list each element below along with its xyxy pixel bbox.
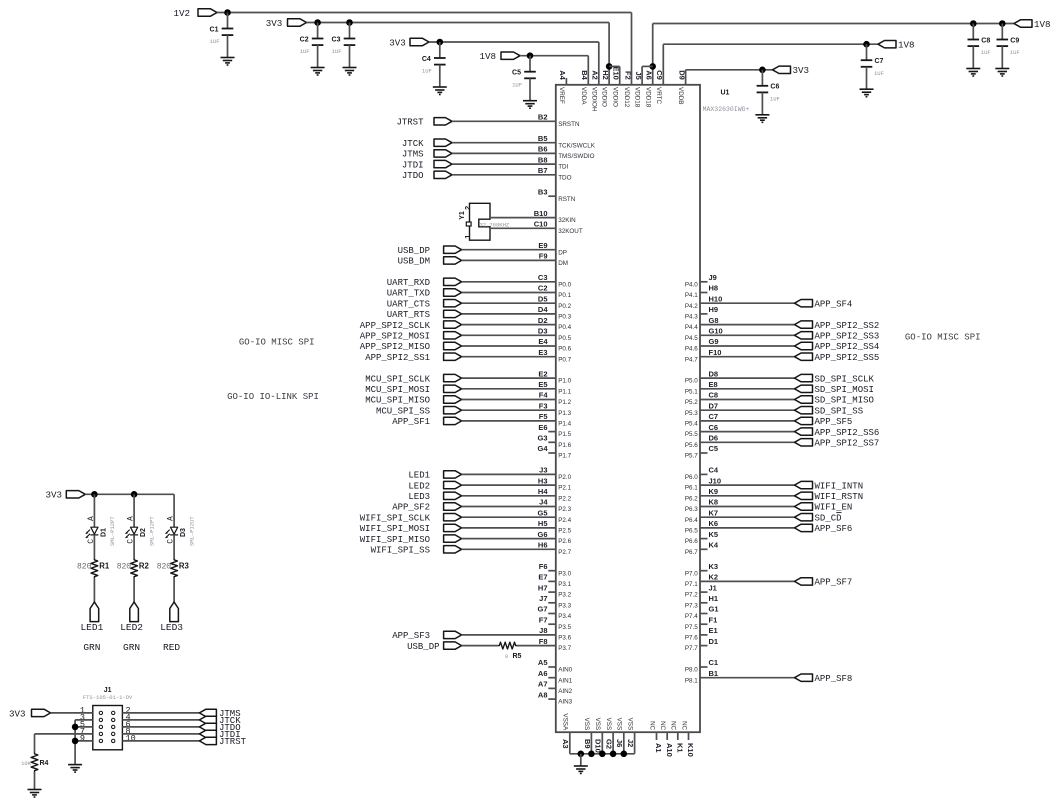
svg-text:P6.4: P6.4: [685, 517, 698, 524]
svg-text:G7: G7: [537, 605, 547, 614]
svg-text:UART_RTS: UART_RTS: [387, 310, 430, 320]
net flag JTDO: [199, 723, 240, 733]
wire to ground: [580, 754, 582, 766]
wire APP_SF8 from pin B1: [700, 677, 795, 679]
pin B4 VDDA (top): [580, 70, 589, 105]
pin stub H9: [700, 313, 708, 315]
svg-text:MAX32630IWG+: MAX32630IWG+: [703, 106, 750, 113]
pin B9 VSS (bottom): [583, 718, 592, 749]
svg-text:NC: NC: [680, 721, 687, 731]
pin stub K10 NC: [688, 732, 690, 740]
svg-text:SD_SPI_MISO: SD_SPI_MISO: [815, 396, 874, 406]
pin E8 P5.1 (right): [685, 380, 718, 395]
junction pin5/gnd bus: [72, 724, 79, 731]
wire SD_SPI_SCLK from pin D8: [700, 377, 795, 379]
svg-text:APP_SF7: APP_SF7: [815, 578, 853, 588]
pin stub G7: [548, 613, 556, 615]
svg-text:JTCK: JTCK: [402, 139, 424, 149]
capacitor C5 1UF: [512, 56, 536, 101]
svg-text:NC: NC: [670, 721, 677, 731]
wire 3V3 to J1 pin1: [51, 712, 93, 714]
connector J1 pin circles row 2: [99, 718, 115, 721]
svg-text:C6: C6: [770, 84, 779, 91]
svg-text:GO-IO MISC SPI: GO-IO MISC SPI: [239, 338, 315, 348]
svg-text:SML-P12PT: SML-P12PT: [149, 516, 156, 546]
svg-text:P0.4: P0.4: [558, 324, 571, 331]
svg-text:C2: C2: [538, 284, 548, 293]
svg-text:P1.1: P1.1: [558, 388, 571, 395]
net flag WIFI_INTN: [795, 481, 864, 491]
net flag JTMS: [199, 709, 240, 719]
svg-text:B3: B3: [538, 187, 548, 196]
svg-text:VREF: VREF: [558, 87, 565, 104]
junction LED2 branch: [131, 491, 138, 498]
wire APP_SF7 from pin K2: [700, 580, 795, 582]
svg-text:3V3: 3V3: [793, 65, 810, 76]
pin D2 P0.4 (left): [538, 316, 572, 331]
pin stub E6: [548, 431, 556, 433]
svg-text:D3: D3: [538, 327, 548, 336]
wire APP_SPI2_MOSI to pin D3: [462, 334, 556, 336]
svg-text:P5.4: P5.4: [685, 421, 698, 428]
svg-text:P6.3: P6.3: [685, 506, 698, 513]
wire APP_SF3 to pin J8: [462, 634, 556, 636]
wire 1V8 down to pin B4 VDDA: [587, 56, 589, 85]
pin stub F1: [700, 623, 708, 625]
net flag WIFI_SPI_MOSI: [360, 524, 462, 534]
svg-text:F10: F10: [709, 348, 722, 357]
pin A6 VDD18 (top): [644, 70, 653, 108]
svg-text:R4: R4: [40, 760, 49, 767]
ground: [311, 68, 325, 76]
svg-text:P7.0: P7.0: [685, 570, 698, 577]
svg-text:LED3: LED3: [160, 622, 183, 633]
pin K10 NC (bottom): [680, 721, 695, 757]
wire 3V3 to D1 anode: [93, 494, 95, 527]
pin J10 P6.1 (right): [685, 476, 721, 491]
pin stub E7: [548, 580, 556, 582]
wire J1 pin2 to JTMS: [122, 712, 199, 714]
svg-text:F4: F4: [539, 391, 549, 400]
pin H9 P4.3 (right): [685, 305, 718, 320]
pin K7 P6.4 (right): [685, 508, 718, 523]
svg-text:J1: J1: [709, 583, 717, 592]
pin G9 P4.6 (right): [685, 337, 719, 352]
svg-text:E2: E2: [538, 369, 547, 378]
wire APP_SPI2_SS4 from pin G9: [700, 345, 795, 347]
svg-text:K6: K6: [709, 519, 719, 528]
svg-text:C6: C6: [709, 423, 719, 432]
junction 3V3/C4: [437, 39, 444, 46]
svg-text:1UF: 1UF: [981, 49, 991, 56]
wire VSS G2 down: [612, 732, 614, 754]
svg-text:A6: A6: [538, 669, 548, 678]
svg-text:H10: H10: [709, 294, 723, 303]
pin C1 P8.0 (right): [685, 658, 718, 673]
power flag 1V8: [479, 51, 520, 62]
wire 3V3 to D2 anode: [133, 494, 135, 527]
wire down to pin J5 VDD18: [641, 66, 643, 84]
pin stub K5: [700, 538, 708, 540]
svg-text:UART_CTS: UART_CTS: [387, 299, 430, 309]
wire APP_SPI2_SS5 from pin F10: [700, 356, 795, 358]
svg-text:K3: K3: [709, 562, 719, 571]
svg-text:NC: NC: [648, 721, 655, 731]
svg-text:MCU_SPI_SS: MCU_SPI_SS: [376, 406, 430, 416]
wire J1 pin8 to JTDI: [122, 733, 199, 735]
power flag 3V3: [773, 65, 810, 76]
pin stub E1: [700, 634, 708, 636]
pin stub F7: [548, 623, 556, 625]
svg-text:U1: U1: [721, 90, 730, 97]
svg-text:P8.0: P8.0: [685, 667, 698, 674]
svg-text:H7: H7: [538, 583, 548, 592]
svg-text:E7: E7: [538, 573, 547, 582]
pin D3 P0.5 (left): [538, 327, 572, 342]
svg-text:A: A: [87, 516, 96, 521]
svg-text:D6: D6: [709, 434, 719, 443]
pin G6 P2.6 (left): [537, 530, 571, 545]
wire 1V8 down to pin A6 VDD18: [652, 24, 654, 85]
wire net 1V2 rail: [217, 12, 632, 14]
power flag 1V8: [878, 40, 915, 51]
svg-text:P6.7: P6.7: [685, 549, 698, 556]
svg-text:SML-P12PT: SML-P12PT: [109, 516, 116, 546]
svg-text:P1.4: P1.4: [558, 421, 571, 428]
svg-text:SRSTN: SRSTN: [558, 121, 580, 128]
svg-text:E4: E4: [538, 337, 548, 346]
net flag SD_SPI_SS: [795, 406, 864, 416]
svg-text:VSS: VSS: [626, 718, 633, 731]
led D1 SML-P12PT: [86, 516, 116, 546]
net flag UART_CTS: [387, 299, 462, 309]
svg-text:P3.0: P3.0: [558, 570, 571, 577]
net flag USB_DM: [398, 257, 462, 267]
svg-text:P2.5: P2.5: [558, 528, 571, 535]
svg-text:P5.7: P5.7: [685, 453, 698, 460]
svg-text:C1: C1: [709, 658, 719, 667]
wire gnd bus vertical: [74, 720, 76, 765]
svg-text:B1: B1: [709, 669, 719, 678]
pin H3 P2.1 (left): [538, 476, 572, 491]
pin G4 P1.7 (left): [537, 444, 571, 459]
wire jog to J5: [642, 65, 653, 67]
svg-text:SD_SPI_MOSI: SD_SPI_MOSI: [815, 385, 874, 395]
svg-text:P4.4: P4.4: [685, 324, 698, 331]
wire USB_DP to pin E9: [462, 249, 556, 251]
svg-text:APP_SF4: APP_SF4: [815, 299, 853, 309]
pin stub K4: [700, 548, 708, 550]
power flag 3V3 (JTAG): [9, 708, 51, 719]
junction VSS D10: [599, 751, 606, 758]
ground: [221, 58, 235, 66]
svg-text:P7.5: P7.5: [685, 624, 698, 631]
pin stub F6: [548, 570, 556, 572]
svg-text:K1: K1: [675, 743, 684, 753]
pin C6 P5.5 (right): [685, 423, 718, 438]
net flag JTMS: [402, 150, 452, 160]
svg-text:10K: 10K: [21, 760, 32, 767]
ground: [523, 101, 537, 109]
wire 3V3 to D3 anode: [173, 494, 175, 527]
svg-text:H1: H1: [709, 594, 719, 603]
wire USB_DM to pin F9: [462, 259, 556, 261]
svg-text:D2: D2: [140, 528, 147, 537]
svg-text:P5.1: P5.1: [685, 388, 698, 395]
net flag JTDO: [402, 171, 452, 181]
svg-text:AIN2: AIN2: [558, 688, 572, 695]
svg-text:J3: J3: [539, 466, 547, 475]
net flag MCU_SPI_SS: [376, 406, 462, 416]
wire J1 pin5 to gnd bus: [75, 726, 93, 728]
svg-text:E9: E9: [538, 241, 547, 250]
pin H10 P4.2 (right): [685, 294, 722, 309]
pin C4 P6.0 (right): [685, 466, 719, 481]
svg-text:K8: K8: [709, 498, 719, 507]
pin E10 VDDIO (top): [611, 66, 620, 107]
wire Y1 pin2 to 32KIN B10: [490, 217, 556, 219]
power flag 3V3: [266, 18, 307, 29]
svg-text:P3.7: P3.7: [558, 645, 571, 652]
wire D2 cathode to R2: [133, 535, 135, 559]
svg-text:F5: F5: [539, 412, 548, 421]
wire LED1 to pin J3: [462, 473, 556, 475]
svg-text:APP_SPI2_SS6: APP_SPI2_SS6: [815, 428, 880, 438]
junction pin9/gnd bus: [72, 738, 79, 745]
svg-text:B9: B9: [583, 739, 592, 749]
svg-text:D3: D3: [180, 528, 187, 537]
ground: [966, 69, 980, 77]
pin stub C4: [700, 473, 708, 475]
svg-text:Y1: Y1: [459, 211, 466, 220]
wire APP_SF5 from pin C7: [700, 420, 795, 422]
svg-text:APP_SF2: APP_SF2: [392, 503, 430, 513]
svg-text:K5: K5: [709, 530, 719, 539]
net flag APP_SF5: [795, 417, 853, 427]
junction VSS B9: [588, 751, 595, 758]
svg-text:P2.1: P2.1: [558, 485, 571, 492]
pin stub J9: [700, 281, 708, 283]
svg-text:P2.2: P2.2: [558, 495, 571, 502]
svg-text:E3: E3: [538, 348, 547, 357]
svg-text:0: 0: [505, 653, 508, 660]
power flag 3V3 (LED rail): [45, 490, 85, 501]
wire VSS ground bus: [570, 753, 635, 755]
svg-text:10: 10: [126, 733, 136, 743]
svg-text:UART_RXD: UART_RXD: [387, 278, 430, 288]
wire 1V2 down to pin F2 VDD12: [631, 13, 633, 85]
svg-text:F8: F8: [539, 637, 548, 646]
wire UART_TXD to pin C2: [462, 292, 556, 294]
svg-text:H9: H9: [709, 305, 719, 314]
wire APP_SPI2_MISO to pin E4: [462, 345, 556, 347]
pin H7 P3.2 (left): [538, 583, 572, 598]
pin D10 VSS (bottom): [594, 718, 603, 753]
svg-text:1UF: 1UF: [422, 68, 432, 75]
svg-text:C5: C5: [709, 444, 719, 453]
wire UART_RXD to pin C3: [462, 281, 556, 283]
svg-text:H6: H6: [538, 541, 548, 550]
svg-text:C4: C4: [422, 56, 431, 63]
net flag SD_SPI_MISO: [795, 396, 874, 406]
svg-text:P0.5: P0.5: [558, 335, 571, 342]
svg-text:C7: C7: [709, 412, 719, 421]
pin H5 P2.5 (left): [538, 519, 572, 534]
pin F8 P3.7 (left): [539, 637, 572, 652]
svg-text:A1: A1: [654, 743, 663, 753]
svg-text:C1: C1: [210, 26, 219, 33]
wire VSS B9 down: [590, 732, 592, 754]
svg-text:K4: K4: [709, 541, 719, 550]
net flag SD_CD: [795, 513, 842, 524]
wire 3V3 down to pin H2 VDDIO: [608, 23, 610, 85]
pin D5 P0.2 (left): [538, 294, 572, 309]
wire J1 pin7 to R4: [35, 733, 93, 735]
svg-text:J6: J6: [615, 739, 624, 747]
pin stub A1 NC: [656, 732, 658, 740]
wire LED3 to pin H4: [462, 495, 556, 497]
wire R4 to ground: [34, 772, 36, 790]
wire MCU_SPI_MOSI to pin E5: [462, 388, 556, 390]
wire 1V8 down to pin C9 VRTC: [662, 44, 664, 85]
wire VSS D10 down: [601, 732, 603, 754]
svg-text:B7: B7: [538, 166, 548, 175]
pin G7 P3.4 (left): [537, 605, 571, 620]
ground: [68, 765, 82, 773]
port flag LED1: [90, 602, 99, 622]
svg-text:P4.6: P4.6: [685, 346, 698, 353]
junction 1V8/C8: [970, 20, 977, 27]
svg-text:VDDIOH: VDDIOH: [590, 87, 597, 112]
wire APP_SPI2_SS2 from pin G8: [700, 324, 795, 326]
svg-text:P3.5: P3.5: [558, 624, 571, 631]
svg-text:SD_SPI_SCLK: SD_SPI_SCLK: [815, 374, 875, 384]
svg-text:G4: G4: [537, 444, 548, 453]
wire APP_SF1 to pin F5: [462, 420, 556, 422]
svg-text:TDO: TDO: [558, 174, 571, 181]
wire R2 to port LED2: [133, 578, 135, 602]
svg-text:B10: B10: [534, 209, 548, 218]
svg-text:820: 820: [117, 563, 132, 572]
net flag JTCK: [199, 716, 241, 726]
svg-text:A: A: [127, 516, 136, 521]
wire J1 pin4 to JTCK: [122, 719, 199, 721]
svg-text:J10: J10: [709, 476, 722, 485]
svg-text:RSTN: RSTN: [558, 196, 576, 203]
pin stub VREF A4: [565, 78, 567, 85]
svg-text:A3: A3: [561, 739, 570, 749]
svg-text:APP_SF3: APP_SF3: [392, 631, 430, 641]
svg-text:VSS: VSS: [605, 718, 612, 731]
connector J1 FTS-105-01-1-DV body: [93, 706, 123, 750]
capacitor C3 1UF: [332, 23, 356, 68]
svg-text:H5: H5: [538, 519, 548, 528]
svg-text:WIFI_SPI_SCLK: WIFI_SPI_SCLK: [360, 513, 431, 523]
wire MCU_SPI_SS to pin F3: [462, 409, 556, 411]
svg-text:P4.0: P4.0: [685, 281, 698, 288]
wire APP_SF2 to pin J4: [462, 506, 556, 508]
net flag MCU_SPI_SCLK: [365, 374, 461, 384]
pin H8 P4.1 (right): [685, 284, 718, 299]
led D2 SML-P12PT: [126, 516, 156, 546]
svg-text:1UF: 1UF: [1010, 49, 1020, 56]
svg-text:B6: B6: [538, 145, 548, 154]
net flag APP_SPI2_SS5: [795, 353, 880, 363]
net flag UART_RTS: [387, 310, 462, 320]
wire SD_SPI_MOSI from pin E8: [700, 388, 795, 390]
svg-text:P3.3: P3.3: [558, 602, 571, 609]
wire WIFI_EN from pin K8: [700, 506, 795, 508]
port flag LED3: [170, 602, 179, 622]
wire J1 pin6 to JTDO: [122, 726, 199, 728]
capacitor C1 1UF: [210, 13, 234, 58]
connector J1 pin circles row 3: [99, 725, 115, 728]
pin stub B3: [548, 195, 556, 197]
svg-text:G10: G10: [709, 327, 723, 336]
svg-text:P7.4: P7.4: [685, 613, 698, 620]
wire WIFI_SPI_SS to pin H6: [462, 548, 556, 550]
wire WIFI_SPI_MOSI to pin H5: [462, 527, 556, 529]
svg-text:1V8: 1V8: [898, 40, 915, 51]
wire D3 cathode to R3: [173, 535, 175, 559]
wire JTDI to pin B8: [452, 163, 556, 165]
net flag APP_SF6: [795, 524, 853, 534]
pin C8 P5.2 (right): [685, 391, 718, 406]
wire MCU_SPI_SCLK to pin E2: [462, 377, 556, 379]
wire net 1V8 rail 3: [663, 43, 878, 45]
svg-text:WIFI_SPI_MISO: WIFI_SPI_MISO: [360, 535, 430, 545]
net flag APP_SPI2_SS6: [795, 428, 880, 438]
pin B10 32KIN (left): [534, 209, 576, 224]
junction VDDIO H2/E10: [606, 63, 613, 70]
pin stub K3: [700, 570, 708, 572]
svg-text:G5: G5: [537, 508, 547, 517]
svg-text:P3.4: P3.4: [558, 613, 571, 620]
svg-text:P7.1: P7.1: [685, 581, 698, 588]
wire net 3V3 rail 2: [429, 41, 599, 43]
junction 3V3/C2: [314, 19, 321, 26]
svg-text:P1.0: P1.0: [558, 378, 571, 385]
pin D8 P5.0 (right): [685, 369, 718, 384]
svg-text:P7.2: P7.2: [685, 592, 698, 599]
net flag UART_RXD: [387, 278, 462, 288]
pin G10 P4.5 (right): [685, 327, 723, 342]
pin A5 AIN0 (left): [538, 658, 573, 673]
svg-text:A5: A5: [538, 658, 548, 667]
capacitor C8 1UF: [968, 24, 991, 69]
svg-text:P4.7: P4.7: [685, 356, 698, 363]
svg-text:J2: J2: [626, 739, 635, 747]
svg-text:NC: NC: [659, 721, 666, 731]
svg-text:USB_DP: USB_DP: [398, 246, 430, 256]
junction LED1 branch: [91, 491, 98, 498]
pin stub G3: [548, 441, 556, 443]
pin F5 P1.4 (left): [539, 412, 572, 427]
pin K5 P6.6 (right): [685, 530, 718, 545]
wire SD_SPI_SS from pin D7: [700, 409, 795, 411]
wire UART_RTS to pin D4: [462, 313, 556, 315]
wire SD_CD from pin K7: [700, 516, 795, 518]
resistor R2 820: [117, 559, 150, 578]
svg-text:GRN: GRN: [123, 642, 140, 653]
net flag WIFI_SPI_SCLK: [360, 513, 462, 523]
svg-text:P8.1: P8.1: [685, 677, 698, 684]
wire R5 to pin F8: [517, 645, 556, 647]
svg-text:P0.2: P0.2: [558, 303, 571, 310]
resistor R4 10K: [21, 753, 48, 772]
wire JTDO to pin B7: [452, 174, 556, 176]
svg-text:LED3: LED3: [408, 492, 430, 502]
